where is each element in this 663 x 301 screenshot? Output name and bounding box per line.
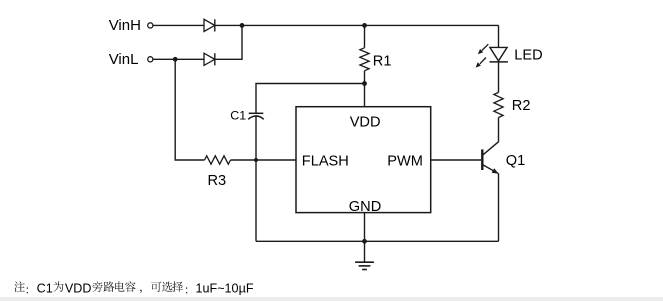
diode D2 [204,53,215,65]
svg-text:R1: R1 [373,53,392,69]
transistor Q1 [482,142,498,174]
IC U1 box [296,107,431,213]
junction R1 bottom / C1 / VDD [362,81,367,86]
svg-text:Q1: Q1 [506,153,525,169]
resistor R3 [205,156,231,164]
wire VinL branch down to R3 [175,59,204,160]
wire VinH to D1 [153,24,204,26]
wire Q1 emitter to bottom rail [498,174,500,242]
resistor R2 [494,62,503,118]
LED D3 [476,44,508,67]
wire C1 bottom down to bottom rail [255,117,257,242]
svg-text:C1: C1 [230,108,246,122]
wire PWM pin to Q1 base [431,159,482,161]
svg-text:VinH: VinH [109,17,141,34]
svg-text:PWM: PWM [387,154,423,170]
wire D2 up to node A [215,25,242,59]
svg-text:VDD: VDD [65,281,92,295]
svg-text:VDD: VDD [350,114,381,130]
wire GND pin down [364,213,366,242]
junction VinL / R3 branch [173,57,178,62]
svg-text:R3: R3 [208,173,227,189]
wire R3 to FLASH pin [231,159,297,161]
svg-text:VinL: VinL [109,51,139,68]
ground [355,241,374,269]
wire bottom rail [256,240,499,242]
svg-text:1uF~10µF: 1uF~10µF [196,281,254,295]
junction bottom rail / ground [362,239,367,244]
svg-text:FLASH: FLASH [302,154,349,170]
terminal VinH [148,23,153,28]
terminal VinL [148,57,153,62]
wire D1 to node A [215,24,242,26]
svg-text:LED: LED [514,48,542,64]
junction FLASH / C1 [254,158,258,162]
node A junction dot [240,23,245,28]
wire VinL to D2 [153,58,204,60]
wire Q1 collector to R2 [498,118,500,142]
note text (CJK drawn as paths) [14,281,254,295]
svg-text:C1: C1 [37,281,53,295]
wire top rail [242,24,499,26]
wire VDD pin [364,84,366,107]
wire C1 top to R1 bottom [256,84,365,114]
svg-text:R2: R2 [512,98,531,114]
wire top rail down to LED [498,25,500,47]
diode D1 [204,19,215,31]
bottom strip [0,297,663,301]
resistor R1 [360,25,369,83]
capacitor C1 [248,113,264,119]
junction top rail / R1 [362,23,367,28]
